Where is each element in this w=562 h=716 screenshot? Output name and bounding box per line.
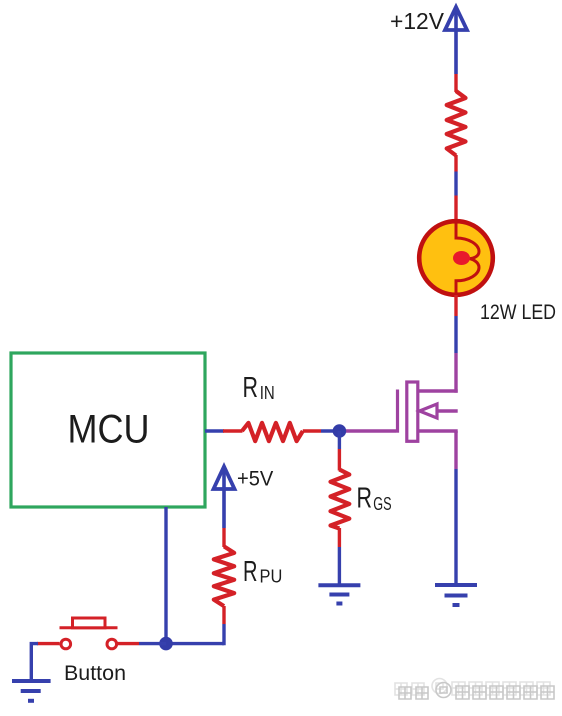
- button actuator: [73, 618, 106, 628]
- button top plate: [60, 626, 118, 629]
- wire: left corner down to ground (blue): [31, 644, 38, 681]
- transistor Q1 (N-channel MOSFET): [340, 382, 458, 441]
- ground (middle, below RGS): [318, 585, 360, 603]
- svg-text:IN: IN: [260, 382, 275, 403]
- svg-text:Button: Button: [64, 662, 126, 685]
- svg-text:MCU: MCU: [68, 408, 150, 452]
- lamp LED1 (12W LED): [419, 221, 493, 295]
- wire: resistor R1 to LED lamp (red then blue then red): [454, 155, 457, 172]
- node A (gate node junction): [333, 424, 347, 438]
- svg-text:PU: PU: [260, 566, 283, 587]
- MCU U1 box: [11, 353, 205, 507]
- wire: +12V to resistor R1 (red top lead): [454, 74, 457, 92]
- wire: LED to MOSFET drain (red then blue then purple): [454, 295, 457, 316]
- drain lead: [418, 389, 458, 392]
- resistor RIN: [242, 423, 303, 441]
- watermark (faint embossed text, approximated): [395, 679, 554, 699]
- gate lead wire (purple): [340, 429, 396, 432]
- wire: MCU bottom pin down to node (blue): [164, 507, 167, 644]
- gate bar: [396, 390, 399, 433]
- resistor RPU: [214, 546, 234, 606]
- wire: button to node (red then blue): [117, 642, 140, 645]
- wire: MOSFET source down to ground (purple then blue): [454, 431, 457, 469]
- power symbol +12V: [445, 7, 467, 74]
- button contact left: [61, 639, 71, 649]
- svg-text:+5V: +5V: [237, 468, 273, 491]
- wire: RGS to ground (red then blue): [338, 528, 341, 547]
- wire: bottom rail node to RPU (blue): [166, 642, 224, 645]
- button contact right: [107, 639, 117, 649]
- pushbutton SW1: [60, 618, 118, 649]
- body arrow: [436, 409, 458, 412]
- ground (left, below button): [12, 681, 51, 701]
- source lead: [418, 431, 457, 433]
- ground (right, below MOSFET source): [435, 585, 477, 605]
- node B (button / MCU / RPU junction): [159, 637, 173, 651]
- svg-text:GS: GS: [373, 493, 391, 514]
- wire: RIN to gate node (red then blue): [303, 429, 321, 432]
- channel rectangle: [407, 382, 418, 441]
- wire red lead into RIN: [223, 429, 243, 432]
- svg-text:R: R: [243, 556, 258, 588]
- resistor RGS: [331, 470, 350, 529]
- svg-text:12W LED: 12W LED: [480, 301, 556, 324]
- wire: +5V to RPU (red lead): [222, 528, 225, 547]
- svg-text:R: R: [243, 372, 259, 404]
- wire: node down to RGS (blue then red): [338, 431, 341, 449]
- wire: MCU output to resistor RIN (blue): [205, 429, 224, 432]
- svg-text:R: R: [357, 483, 373, 515]
- resistor R1 (12V series resistor): [447, 91, 466, 156]
- svg-text:+12V: +12V: [390, 8, 444, 34]
- wire: button left contact lead (red): [37, 642, 60, 645]
- wire: RPU to bottom rail (red then blue corner): [222, 606, 225, 624]
- power symbol +5V: [214, 467, 235, 529]
